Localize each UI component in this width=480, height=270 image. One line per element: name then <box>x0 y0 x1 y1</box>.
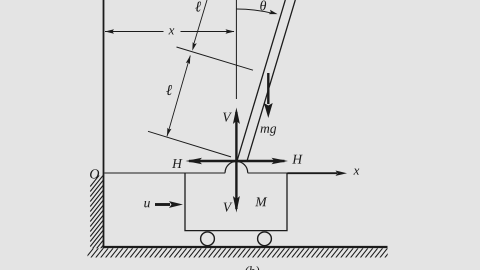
floor hatching <box>86 248 397 257</box>
x-axis label x <box>353 169 359 175</box>
label V up <box>223 113 232 122</box>
force H left (bold) <box>189 160 237 162</box>
wall hatching <box>90 170 103 267</box>
vertical reference line through pivot <box>235 0 237 99</box>
caption (b) mostly cropped <box>245 266 250 270</box>
lower script-l label <box>166 85 172 95</box>
theta arc with arrowhead <box>236 9 272 13</box>
CG tick line (perpendicular at center of gravity) <box>177 47 254 70</box>
wheel right <box>258 232 272 246</box>
wheel left <box>201 232 215 246</box>
x dimension label <box>168 28 174 34</box>
label u <box>144 201 150 207</box>
origin label O <box>90 169 99 178</box>
x dimension line (double arrow) <box>105 31 164 33</box>
upper length dim line <box>193 0 207 46</box>
force V up (bold) <box>235 112 237 162</box>
label H left <box>172 159 183 168</box>
x-axis <box>104 172 225 174</box>
force H right (bold) <box>236 160 284 162</box>
theta label <box>260 1 266 11</box>
pendulum rod (two parallel lines) <box>237 0 285 160</box>
control force u (bold) <box>155 203 170 206</box>
upper script-l label <box>195 2 201 12</box>
pivot tick line (perpendicular at pivot) <box>148 131 231 157</box>
label H right <box>292 155 303 164</box>
lower length dim line <box>167 56 190 137</box>
pivot dome (pin bearing) <box>225 161 248 172</box>
label mg <box>261 126 270 132</box>
gravity force mg (bold) <box>267 73 269 104</box>
label V down <box>224 203 233 212</box>
force V down (bold) <box>235 161 237 209</box>
cart mass label M <box>255 197 267 206</box>
cart M (rectangle body) <box>185 173 287 231</box>
floor (ground line) <box>103 246 388 248</box>
wall (vertical boundary line) <box>103 0 105 248</box>
